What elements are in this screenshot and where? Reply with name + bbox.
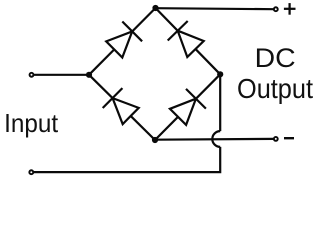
wire bridge arm left-top (89, 8, 156, 75)
label minus sign (284, 137, 294, 139)
wire bridge arm left-bottom (89, 75, 155, 140)
wire bridge arm bottom-right (155, 74, 220, 140)
terminal minus open circle (274, 137, 278, 141)
diode D3 bottom-to-left (103, 88, 139, 124)
node left junction dot (86, 72, 92, 78)
wire plus output rail (156, 8, 274, 9)
wire bridge arm top-right (156, 8, 221, 74)
node top junction dot (152, 5, 158, 11)
svg-text:Output: Output (237, 73, 313, 104)
wire vertical lower segment (33, 147, 220, 172)
terminal input upper open circle (30, 73, 34, 77)
svg-text:Input: Input (4, 108, 59, 138)
terminal input lower open circle (29, 170, 33, 174)
diode D2 right-to-top (168, 21, 204, 57)
wire minus output rail (155, 138, 274, 141)
diode D4 bottom-to-right (170, 89, 206, 125)
diode D1 left-to-top (106, 22, 142, 58)
label plus sign (284, 3, 296, 15)
terminal plus open circle (274, 7, 278, 11)
svg-text:DC: DC (255, 43, 296, 73)
node right junction dot (217, 71, 223, 77)
node bottom junction dot (152, 137, 158, 143)
wire vertical from right node upper segment (219, 74, 221, 131)
wire hop over minus rail (212, 131, 220, 147)
wire input upper lead (33, 74, 89, 76)
